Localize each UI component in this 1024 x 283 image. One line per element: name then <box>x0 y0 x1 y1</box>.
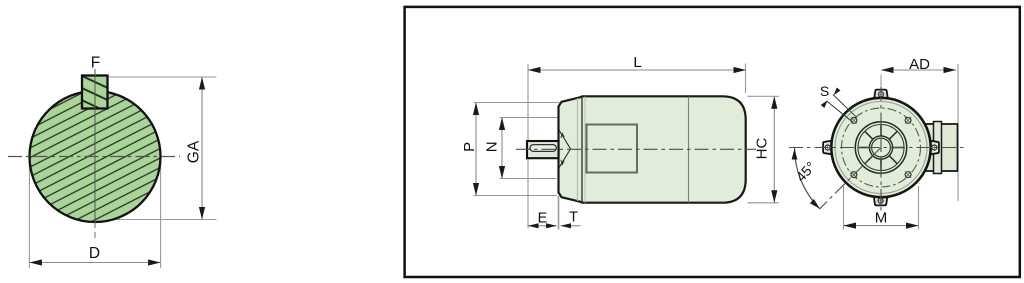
svg-text:S: S <box>820 83 829 99</box>
svg-text:P: P <box>461 142 478 152</box>
svg-text:GA: GA <box>186 140 203 163</box>
svg-text:M: M <box>875 210 888 227</box>
svg-text:L: L <box>633 54 641 71</box>
svg-text:E: E <box>538 211 548 227</box>
svg-text:AD: AD <box>909 56 930 73</box>
svg-text:D: D <box>89 245 100 262</box>
svg-text:HC: HC <box>754 138 771 160</box>
svg-text:F: F <box>91 55 100 72</box>
svg-text:T: T <box>569 210 578 226</box>
svg-text:N: N <box>484 141 501 152</box>
